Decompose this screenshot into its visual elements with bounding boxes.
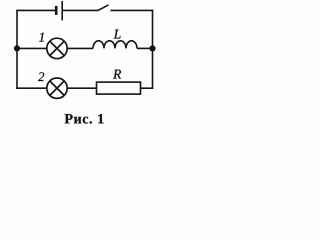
wire: lamp 2 to resistor bbox=[67, 87, 96, 89]
resistor R: rectangle body bbox=[97, 82, 141, 94]
wire: top, switch to top-right corner bbox=[111, 9, 154, 11]
node: left junction bbox=[14, 45, 20, 51]
wire: left vertical bbox=[16, 10, 18, 89]
wire: lamp 1 to inductor bbox=[67, 47, 93, 49]
wire: left node to lamp 1 bbox=[17, 47, 47, 49]
inductor L: 4-loop coil bbox=[93, 41, 137, 49]
switch lever (open) bbox=[98, 5, 109, 10]
label L (inductor) bbox=[114, 30, 121, 39]
wire: bottom-left corner to lamp 2 bbox=[16, 87, 47, 89]
battery cell: long thin plate bbox=[61, 1, 63, 21]
wire: inductor to right node bbox=[137, 47, 153, 49]
wire: right vertical bbox=[152, 10, 154, 89]
caption: Рис. 1 bbox=[65, 114, 104, 124]
label R (resistor) bbox=[113, 70, 121, 79]
lamp 2: circle with cross bbox=[47, 78, 67, 98]
wire: resistor to bottom-right corner bbox=[141, 87, 154, 89]
battery cell: short thick plate bbox=[55, 6, 58, 15]
label 1 (lamp 1) bbox=[39, 33, 44, 42]
node: right junction bbox=[149, 45, 155, 51]
wire: top left segment to battery bbox=[17, 9, 55, 11]
wire: top, battery to switch bbox=[62, 9, 98, 11]
lamp 1: circle with cross bbox=[47, 38, 67, 58]
label 2 (lamp 2) bbox=[38, 72, 44, 81]
